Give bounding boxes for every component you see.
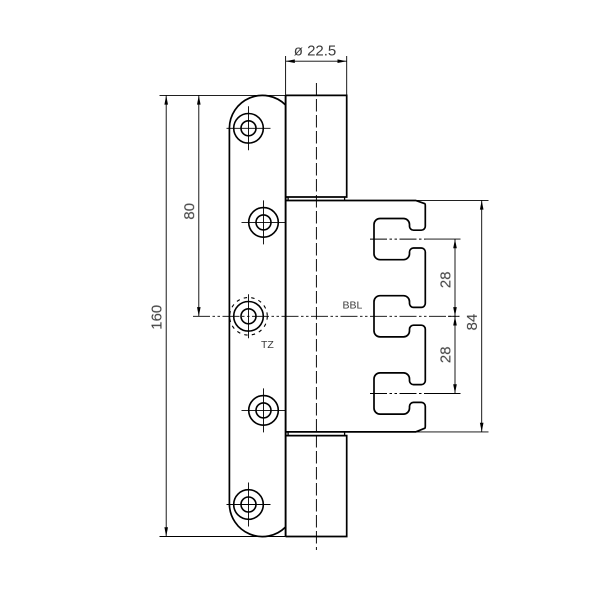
- svg-text:80: 80: [181, 203, 198, 220]
- extension line bottom (plate bottom): [160, 536, 286, 538]
- frame-leaf plate (stadium outline): [229, 95, 285, 536]
- dashed circle marker around hole 3: [230, 298, 268, 336]
- extension tick at upper cutout center: [426, 238, 461, 240]
- svg-text:84: 84: [464, 314, 481, 331]
- dimension line dia 22.5: [286, 60, 347, 62]
- arrowheads dia 22.5: [286, 59, 347, 63]
- svg-text:28: 28: [437, 271, 454, 288]
- screw hole 5: [234, 490, 264, 520]
- extension lines dia 22.5: [286, 56, 347, 95]
- screw hole 2: [249, 208, 279, 238]
- extension tick at BBL: [448, 315, 459, 317]
- crosshair hole 5: [227, 483, 271, 527]
- svg-text:28: 28: [437, 346, 454, 363]
- extension lines 84 (leaf top and bottom): [415, 200, 489, 432]
- dimension line 28/28: [454, 239, 456, 393]
- main vertical edge (plate right edge / barrel left edge): [285, 95, 287, 536]
- bottom knuckle of barrel: [286, 436, 347, 537]
- crosshair hole 4: [242, 388, 286, 432]
- svg-text:ø 22.5: ø 22.5: [294, 42, 337, 59]
- arrowheads 160: [164, 95, 168, 536]
- dimension line 80: [198, 95, 200, 316]
- screw hole 3 (center, TZ): [234, 302, 264, 332]
- svg-text:TZ: TZ: [261, 339, 274, 351]
- BBL hinge reference center line (horizontal): [193, 315, 459, 317]
- dimension line 84: [481, 200, 483, 432]
- screw hole 4: [249, 396, 279, 426]
- extension tick at lower cutout center: [426, 393, 461, 395]
- svg-text:160: 160: [149, 305, 166, 330]
- center line of upper cutout: [370, 238, 426, 240]
- center line of lower cutout: [370, 393, 426, 395]
- bottom bearing washer: [288, 432, 345, 436]
- top knuckle of barrel: [286, 95, 347, 197]
- top bearing washer: [288, 197, 345, 201]
- svg-text:BBL: BBL: [343, 299, 363, 311]
- extension line top (plate top): [160, 94, 286, 96]
- crosshair hole 2: [242, 200, 286, 244]
- barrel axis center line (dashed vertical): [315, 83, 317, 550]
- arrowheads 84: [480, 200, 484, 432]
- arrowheads 28/28: [453, 239, 457, 393]
- crosshair hole 3 (vertical): [248, 294, 250, 338]
- screw hole 1: [234, 114, 264, 144]
- dimension line 160: [165, 95, 167, 536]
- crosshair hole 1: [227, 106, 271, 150]
- arrowheads 80: [197, 95, 201, 316]
- door-leaf comb plate with 3 T-slot cutouts: [286, 201, 426, 432]
